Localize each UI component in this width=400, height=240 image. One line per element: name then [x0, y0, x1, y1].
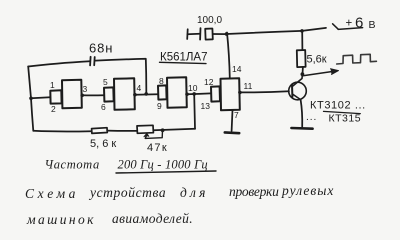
caption line 1 — [25, 183, 334, 201]
svg-text:...: ... — [306, 112, 317, 123]
svg-text:проверки: проверки — [229, 184, 279, 199]
junction R2 wiper tap — [161, 128, 165, 132]
svg-text:6: 6 — [355, 15, 363, 32]
wire C2 to supply junction — [213, 33, 227, 35]
resistor R3 5,6к — [297, 31, 306, 74]
square wave icon — [337, 54, 377, 64]
ground GND1 — [225, 131, 239, 134]
svg-text:5: 5 — [103, 77, 108, 87]
svg-text:+: + — [346, 18, 353, 30]
svg-text:14: 14 — [232, 64, 242, 74]
junction supply at R3 — [300, 29, 304, 33]
wire R2 to riser — [154, 129, 196, 130]
label Q1 alt КТ315 — [306, 112, 361, 125]
svg-text:1: 1 — [50, 80, 55, 90]
svg-text:3: 3 — [83, 84, 88, 94]
ground GND2 — [291, 127, 312, 130]
junction supply at pin14 — [225, 32, 229, 36]
svg-text:КТ3102 ...: КТ3102 ... — [310, 100, 366, 112]
svg-text:8: 8 — [159, 76, 164, 86]
wire supply stub right — [302, 28, 326, 31]
wire C1 to gate2 output node — [95, 59, 146, 94]
wire pin7 to ground — [231, 110, 234, 131]
svg-text:Схема: Схема — [25, 186, 79, 201]
svg-text:12: 12 — [204, 77, 214, 87]
label frequency Частота — [45, 158, 208, 172]
wire pin14 to supply — [227, 33, 230, 79]
svg-text:13: 13 — [201, 101, 211, 111]
wire gate1 to gate2 — [82, 94, 104, 96]
svg-text:2: 2 — [51, 104, 56, 114]
svg-text:машинок: машинок — [26, 212, 96, 227]
wire gate4 output to Q1 base — [240, 91, 289, 92]
gate U1.1 — [50, 80, 82, 109]
svg-text:В: В — [369, 19, 376, 31]
wire rail to gate1 input — [31, 97, 50, 98]
junction gate4 output — [238, 91, 242, 95]
junction feedback C node — [144, 92, 148, 96]
label +6В — [346, 15, 376, 32]
svg-text:устройства: устройства — [88, 185, 166, 200]
svg-text:авиамоделей.: авиамоделей. — [112, 211, 193, 226]
wire gate3 to gate4 — [187, 92, 211, 95]
capacitor C2 terminal stub — [186, 29, 189, 39]
junction gate3 output — [185, 92, 189, 96]
node A: gate1 input junction — [29, 97, 33, 101]
gate U1.2 — [104, 78, 135, 110]
svg-text:К561ЛА7: К561ЛА7 — [160, 52, 208, 64]
svg-text:Частота: Частота — [45, 158, 100, 172]
transistor Q1 — [289, 74, 307, 100]
gate U1.3 — [158, 77, 187, 108]
wire gate2 to gate3 — [135, 93, 158, 95]
svg-text:47к: 47к — [147, 142, 168, 154]
svg-text:200 Гц - 1000 Гц: 200 Гц - 1000 Гц — [118, 158, 208, 172]
wire R1 to R2 — [107, 130, 137, 132]
svg-text:9: 9 — [157, 101, 162, 111]
svg-text:7: 7 — [234, 110, 239, 120]
svg-text:68н: 68н — [89, 41, 113, 56]
wire emitter to ground — [301, 100, 303, 127]
svg-text:5,6к: 5,6к — [307, 54, 327, 66]
power +6В tick — [333, 24, 339, 29]
svg-text:для: для — [180, 185, 209, 200]
wire supply run to R3 — [227, 31, 302, 34]
IC U1 label К561ЛА7 — [160, 52, 208, 64]
wire bottom feedback left — [33, 130, 91, 133]
junction gate1 output — [80, 94, 84, 98]
gate U1.4 — [211, 78, 240, 110]
svg-text:11: 11 — [244, 81, 253, 91]
capacitor C2 — [200, 28, 213, 39]
power +6В underline — [338, 28, 362, 30]
caption line 2 — [26, 211, 193, 227]
output arrow — [303, 69, 339, 76]
svg-text:рулевых: рулевых — [281, 183, 334, 198]
svg-text:6: 6 — [101, 102, 106, 112]
svg-text:4: 4 — [137, 83, 142, 93]
label Q1 type КТ3102 — [310, 100, 366, 112]
svg-text:100,0: 100,0 — [197, 15, 222, 26]
potentiometer R2 47к — [137, 125, 163, 138]
resistor R1 5,6к bottom — [92, 128, 108, 134]
svg-text:КТ315: КТ315 — [329, 113, 362, 125]
svg-text:5, 6 к: 5, 6 к — [90, 138, 116, 150]
junction collector node — [301, 72, 305, 76]
junction gate2 output — [133, 93, 137, 97]
svg-text:10: 10 — [188, 83, 198, 93]
wire riser to pin10 node — [193, 94, 196, 129]
capacitor C1 — [90, 57, 95, 66]
wire stub to C2 — [188, 33, 200, 36]
wire top feedback to C1 — [28, 61, 90, 66]
junction feedback R node — [192, 92, 196, 96]
wire left rail — [28, 67, 33, 131]
